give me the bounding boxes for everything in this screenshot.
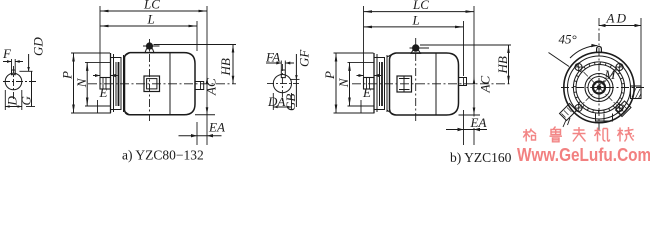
dimension HB (b) — [507, 45, 510, 84]
body seam (b) — [435, 53, 437, 115]
svg-text:N: N — [336, 77, 351, 88]
boss on drive-end face (b) — [459, 78, 467, 86]
svg-text:L: L — [147, 12, 155, 27]
motor body (a) — [124, 53, 196, 115]
45 degree leader line — [549, 53, 570, 67]
main centerline (a) — [88, 83, 236, 85]
dimension DA — [273, 93, 291, 110]
dimension LC (a) — [100, 6, 207, 145]
svg-text:GF: GF — [297, 49, 312, 67]
foot (bottom-right) — [616, 101, 632, 117]
char ji (机) — [595, 128, 610, 142]
base line extension (b) — [459, 114, 481, 116]
detail (a) centerlines — [3, 81, 36, 83]
dimension AC (b) : arrows on x=474 line — [473, 77, 476, 116]
hub circles — [585, 74, 613, 102]
terminal box (b) — [397, 76, 412, 92]
bolt hole (bottom-right) — [615, 104, 624, 113]
second circle — [568, 56, 631, 119]
bolt hole (top-left) — [574, 63, 583, 72]
diagonal centerlines — [576, 64, 623, 111]
45 degree arc — [570, 44, 598, 58]
bottom bracket — [596, 114, 613, 122]
svg-text:L: L — [412, 13, 420, 28]
dimension LC (b) — [364, 6, 475, 145]
shaft bore — [593, 82, 605, 94]
label M with leader — [600, 67, 617, 85]
foot (bottom-left) — [560, 104, 577, 128]
dimension EA (a) — [179, 134, 222, 137]
svg-text:45°: 45° — [559, 32, 577, 47]
eyebolt (b) — [410, 44, 430, 53]
svg-text:FA: FA — [265, 50, 280, 65]
svg-text:P: P — [322, 71, 337, 80]
dimension F — [3, 59, 23, 70]
dimension L (b) — [364, 21, 464, 145]
svg-text:b) YZC160: b) YZC160 — [450, 150, 512, 165]
svg-text:M: M — [604, 67, 617, 82]
top lug — [597, 47, 602, 53]
radial grille ticks — [573, 62, 625, 114]
svg-text:LC: LC — [412, 0, 429, 12]
svg-text:GB: GB — [283, 94, 298, 111]
HB extension line (a) — [154, 44, 237, 46]
svg-text:AC: AC — [204, 78, 219, 96]
svg-text:HB: HB — [495, 56, 510, 74]
svg-text:AD: AD — [606, 11, 629, 26]
terminal box (a) — [144, 76, 160, 92]
svg-text:AC: AC — [478, 76, 493, 94]
dimension AC (a) : arrows on the x=207 line — [206, 77, 209, 115]
shaft (b) — [364, 78, 375, 90]
svg-text:E: E — [362, 85, 371, 100]
dimension GF — [290, 54, 300, 79]
shaft crosshair — [590, 79, 608, 97]
flange / end bell (b) — [374, 53, 387, 113]
char xie (械) — [618, 127, 635, 142]
svg-text:HB: HB — [218, 58, 233, 76]
dimension GB — [295, 79, 297, 107]
boss on drive-end face (a) — [195, 82, 204, 90]
svg-text:EA: EA — [208, 120, 225, 135]
watermark: chinese characters (drawn strokes) — [523, 127, 634, 142]
detail (a) keyway — [11, 70, 16, 75]
shaft-section detail (a): circle — [5, 73, 22, 90]
dimension P (a) — [71, 53, 111, 113]
svg-text:a) YZC80−132: a) YZC80−132 — [122, 148, 204, 163]
motor body (b) — [387, 53, 459, 115]
shaft-section detail (b): circle — [273, 75, 291, 93]
dimension D — [5, 90, 22, 110]
dimension N (a) — [85, 62, 110, 113]
dimension E (a) — [93, 74, 118, 77]
dimension N (b) — [348, 62, 374, 113]
svg-text:F: F — [2, 46, 12, 61]
svg-text:EA: EA — [470, 115, 487, 130]
dimension HB (a) — [232, 45, 235, 84]
base line extension (a) — [195, 114, 215, 116]
dimension GD — [19, 54, 32, 71]
svg-text:Www.GeLufu.Com: Www.GeLufu.Com — [517, 145, 650, 165]
outer circle — [564, 52, 634, 122]
svg-text:N: N — [74, 77, 89, 88]
terminal box tab (right) — [631, 86, 642, 99]
dimension AD — [599, 18, 641, 86]
inner ring — [576, 65, 622, 111]
flange / end bell (a) — [111, 53, 124, 113]
end view centerlines — [598, 18, 600, 133]
shaft (a) — [100, 78, 111, 90]
bolt hole (bottom-left) — [574, 104, 583, 113]
detail (b) centerlines — [267, 83, 299, 85]
svg-text:LC: LC — [143, 0, 160, 12]
HB extension line (b) — [420, 44, 511, 46]
eyebolt centerline (b) — [415, 38, 417, 121]
char fu (夫) — [573, 127, 586, 142]
detail (b) keyway — [281, 70, 286, 78]
dimension EA (b) — [446, 128, 487, 131]
char ge (格) — [523, 129, 536, 142]
bolt hole M (top-right) — [615, 63, 624, 72]
body seam (a) — [169, 53, 171, 115]
svg-text:G: G — [19, 96, 34, 106]
dimension P (b) — [334, 53, 375, 113]
dimension G — [26, 71, 35, 106]
dimension L (a) — [100, 21, 197, 145]
svg-text:E: E — [99, 85, 108, 100]
svg-text:D: D — [5, 96, 20, 107]
label EA (b) — [469, 117, 490, 129]
dimension E (b) — [357, 74, 382, 77]
eyebolt (a) — [143, 42, 160, 52]
dimension FA — [266, 61, 294, 71]
eyebolt centerline (a) — [149, 39, 151, 121]
fan cover ring — [573, 62, 624, 113]
char lu (鲁) — [550, 127, 563, 142]
svg-text:P: P — [60, 71, 75, 80]
svg-text:GD: GD — [31, 37, 46, 56]
main centerline (b) — [352, 83, 511, 85]
